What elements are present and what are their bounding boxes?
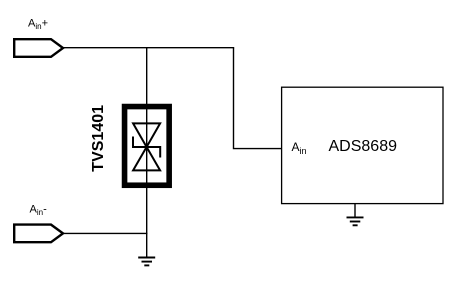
TVS top triangle [133, 123, 160, 147]
connector Ain- [14, 225, 63, 243]
TVS zener bar with hooks [133, 137, 160, 158]
wire vertical through TVS from node to ground [146, 47, 148, 257]
wire right vertical down to Ain pin [234, 48, 282, 149]
svg-text:ADS8689: ADS8689 [329, 138, 398, 155]
svg-text:TVS1401: TVS1401 [90, 105, 107, 172]
wire top horizontal from Ain+ to corner [63, 47, 235, 49]
TVS diode D1 body [125, 106, 170, 185]
wire segment inside TVS body [146, 106, 148, 185]
ground below IC [347, 217, 364, 225]
ground left [138, 258, 155, 266]
wire bottom horizontal from Ain- to node [63, 232, 148, 234]
wire ground stub below IC [354, 204, 356, 218]
connector Ain+ [14, 39, 63, 57]
IC U1 ADS8689 [282, 87, 443, 203]
TVS bottom triangle [133, 147, 160, 170]
